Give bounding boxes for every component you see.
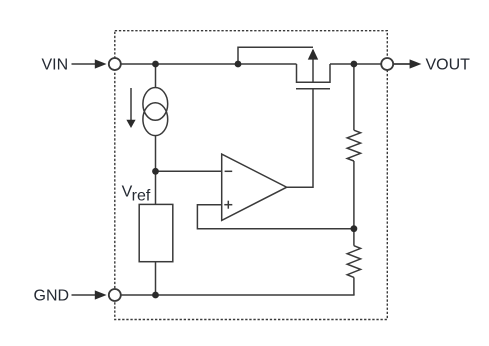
svg-text:Vref: Vref: [122, 183, 151, 204]
Q1 body line with arrow: [312, 50, 314, 82]
Q1 gate plate: [296, 88, 330, 90]
wire: body connection loop: [238, 47, 313, 64]
I1 current direction arrow: [130, 88, 132, 122]
wire: GND lead: [72, 294, 96, 296]
wire: VOUT node down to divider: [353, 64, 355, 130]
wire: VIN rail: [108, 63, 297, 65]
wire: VOUT lead: [393, 63, 410, 65]
pin circle VOUT: [381, 58, 393, 70]
wire: R1 to feedback node: [353, 161, 355, 246]
junction node on VIN rail at current source: [152, 61, 159, 68]
GND entry arrow: [95, 290, 107, 299]
svg-text:VOUT: VOUT: [426, 57, 471, 74]
voltage reference Vref box: [139, 204, 173, 261]
current source I1: [155, 64, 157, 88]
svg-text:GND: GND: [34, 288, 70, 305]
wire: rail to VOUT: [330, 63, 410, 65]
resistor R1: [347, 130, 360, 161]
VOUT exit arrow: [410, 59, 422, 68]
VIN entry arrow: [95, 59, 107, 68]
wire: Vref to ground rail: [155, 262, 157, 295]
resistor R2: [347, 246, 360, 278]
svg-text:VIN: VIN: [42, 57, 69, 74]
wire: inverting input: [156, 170, 222, 172]
pin circle GND: [109, 289, 121, 301]
op-amp U1: [222, 154, 287, 220]
IC boundary (dashed): [115, 31, 388, 320]
wire: gate to op-amp output: [287, 89, 313, 187]
wire: VIN lead: [72, 63, 96, 65]
wire: current source to Vref node: [155, 136, 157, 205]
junction node on VIN rail at body loop: [235, 61, 242, 68]
junction node Vref / inverting input: [152, 168, 159, 175]
wire: non-inverting input feedback: [197, 205, 354, 229]
pin circle VIN: [109, 58, 121, 70]
Q1 source/drain legs and channel: [297, 64, 331, 82]
junction node GND rail at Vref: [152, 292, 159, 299]
wire: R2 to ground rail: [353, 277, 355, 295]
junction node on rail at VOUT/divider: [351, 61, 358, 68]
wire: GND rail: [108, 294, 355, 296]
junction node feedback divider tap: [351, 225, 358, 232]
U1 minus sign: [225, 170, 233, 172]
U1 plus sign: [224, 204, 232, 206]
